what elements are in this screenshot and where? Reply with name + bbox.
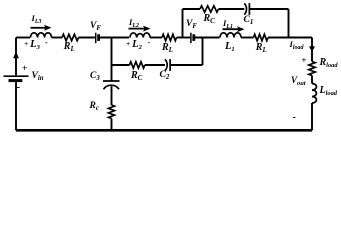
wire C1 to top right corner bbox=[249, 8, 288, 10]
wire L2 to RL2 bbox=[150, 37, 162, 39]
label Vin bbox=[32, 72, 44, 83]
label RC top bbox=[204, 14, 215, 25]
resistor RL3 bbox=[254, 34, 269, 40]
resistor Rc bbox=[109, 105, 115, 118]
label IL2 bbox=[129, 18, 139, 29]
label IL1 bbox=[223, 19, 233, 30]
battery Vin long plate bbox=[4, 75, 29, 77]
label C2 bbox=[160, 71, 170, 82]
wire C3 to Rc bbox=[111, 86, 113, 105]
label Lload bbox=[320, 86, 337, 97]
wire top rail segment left bbox=[16, 37, 30, 39]
capacitor C1 curved plate bbox=[244, 3, 246, 14]
label Iload bbox=[290, 40, 304, 51]
label plus right bbox=[302, 56, 307, 65]
capacitor C2 straight plate bbox=[169, 59, 171, 71]
battery VF1 short plate bbox=[97, 34, 100, 41]
label RL1 bbox=[64, 42, 75, 53]
wire left rail lower bbox=[15, 82, 17, 130]
label + L2 - bbox=[126, 40, 142, 52]
wire middle branch left bbox=[112, 64, 130, 66]
wire bottom rail bbox=[16, 129, 312, 132]
label VF1 bbox=[90, 22, 101, 33]
label Vin plus bbox=[22, 65, 27, 75]
wire top branch left bbox=[183, 8, 201, 10]
label IL3 bbox=[32, 14, 42, 25]
current arrow IL1 bbox=[223, 28, 240, 30]
wire VF2 to L1 bbox=[195, 37, 220, 39]
label L2 minus bbox=[148, 39, 151, 47]
label VF2 bbox=[186, 20, 197, 31]
resistor RL1 bbox=[62, 34, 79, 40]
label L3 minus bbox=[45, 39, 48, 47]
resistor RL2 bbox=[162, 34, 177, 40]
inductor L2 bbox=[130, 33, 150, 38]
wire right rail top bbox=[311, 38, 313, 62]
capacitor C2 curved plate bbox=[165, 59, 167, 70]
wire RC to C1 bbox=[219, 8, 245, 10]
current arrow IL3 bbox=[31, 27, 47, 29]
wire node C down to middle branch bbox=[202, 38, 204, 66]
label Rc bbox=[90, 102, 99, 113]
label RC middle bbox=[131, 71, 142, 82]
label + L3 - bbox=[24, 40, 40, 52]
label C1 bbox=[244, 16, 254, 27]
current arrow Iload down bbox=[309, 46, 315, 52]
current arrow IL2 bbox=[129, 28, 146, 30]
label C3 bbox=[90, 72, 100, 83]
inductor L3 bbox=[31, 33, 52, 38]
inductor L1 bbox=[220, 33, 241, 38]
wire Rload to Lload bbox=[311, 76, 313, 84]
wire RL3 to right corner bbox=[268, 37, 312, 39]
resistor Rload bbox=[309, 62, 315, 76]
inductor Lload bbox=[312, 84, 316, 104]
battery VF2 short plate bbox=[192, 34, 195, 41]
wire RL1 to VF1 bbox=[79, 37, 95, 39]
capacitor C3 straight plate bbox=[103, 80, 120, 82]
wire Rc to bottom rail bbox=[111, 119, 113, 131]
current arrow up left rail bbox=[13, 51, 19, 58]
battery VF1 long plate bbox=[95, 33, 97, 44]
battery Vin short plate bbox=[9, 79, 23, 82]
wire VF1 to L2 bbox=[100, 37, 129, 39]
resistor RC middle bbox=[130, 62, 145, 68]
label minus right bbox=[293, 113, 296, 123]
capacitor C3 curved plate bbox=[104, 85, 120, 89]
label Vin minus bbox=[17, 82, 21, 93]
label RL2 bbox=[162, 43, 173, 54]
wire node D down from top branch bbox=[288, 9, 290, 38]
label Rload bbox=[320, 58, 338, 69]
label Vout bbox=[291, 76, 306, 87]
node A vertical wire bbox=[111, 38, 113, 82]
wire Lload to bottom rail bbox=[311, 103, 313, 130]
wire RL2 to VF2 bbox=[177, 37, 191, 39]
resistor RC top bbox=[200, 6, 218, 12]
wire L3 to RL1 bbox=[52, 37, 63, 39]
label L1 bbox=[225, 42, 235, 54]
wire node B up to top branch bbox=[182, 9, 184, 38]
capacitor C1 straight plate bbox=[248, 3, 250, 15]
battery VF2 long plate bbox=[190, 33, 192, 44]
label RL3 bbox=[256, 43, 267, 54]
wire left rail upper bbox=[15, 38, 17, 76]
wire C2 to node C corner bbox=[170, 64, 202, 66]
wire L1 to RL3 bbox=[241, 37, 254, 39]
wire RC2 to C2 bbox=[145, 64, 165, 66]
